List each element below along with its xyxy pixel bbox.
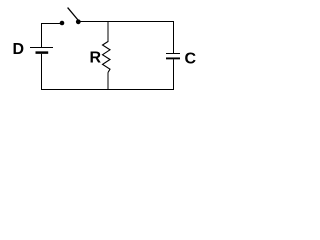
battery D (short thick plate) xyxy=(36,51,49,54)
capacitor C (top thin plate) xyxy=(166,53,180,55)
wire left edge upper (battery to top-left corner) xyxy=(41,23,43,48)
switch contact dot right xyxy=(76,19,81,24)
wire resistor branch upper xyxy=(107,22,109,43)
wire top-right segment (switch to top-right corner) xyxy=(81,21,175,23)
svg-text:R: R xyxy=(90,50,102,67)
svg-text:C: C xyxy=(185,51,197,68)
switch contact dot left xyxy=(60,21,65,26)
wire resistor branch lower xyxy=(107,73,109,91)
wire bottom xyxy=(41,89,174,91)
capacitor C (bottom thick plate) xyxy=(166,57,180,59)
wire right edge upper xyxy=(173,21,175,54)
wire top-left segment (battery to switch) xyxy=(41,23,61,25)
wire right edge lower xyxy=(173,59,175,90)
svg-text:D: D xyxy=(13,41,25,58)
resistor R zigzag xyxy=(103,42,111,73)
switch lever (open) xyxy=(68,8,78,20)
wire left edge lower xyxy=(41,54,43,90)
battery D (long thin plate) xyxy=(30,47,53,49)
